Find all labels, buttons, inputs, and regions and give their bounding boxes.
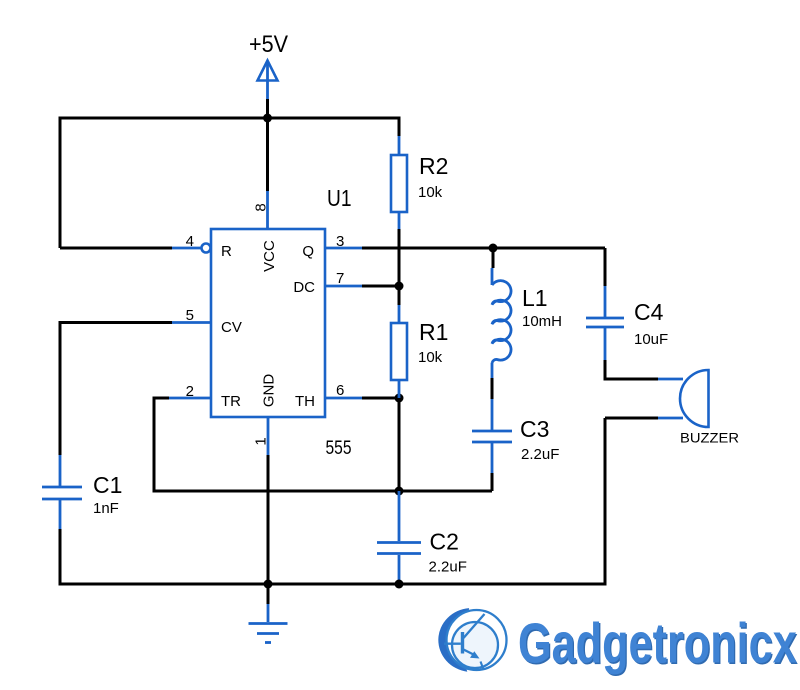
- svg-text:CV: CV: [221, 319, 242, 336]
- wire L1 to C3: [491, 378, 494, 399]
- capacitor C4: [586, 248, 624, 360]
- buzzer: [680, 370, 709, 427]
- wire bottom rail: [60, 418, 605, 584]
- buzzer top lead: [658, 378, 683, 381]
- svg-text:Q: Q: [302, 243, 314, 260]
- L1 designator: [522, 285, 548, 311]
- pin name DC: [293, 279, 315, 296]
- node C2 top junction: [395, 487, 404, 496]
- pin 3 stub: [325, 247, 362, 250]
- C1 value 1nF: [93, 500, 119, 517]
- wire +5V stem: [266, 99, 269, 118]
- wire C3 to TR net: [491, 473, 494, 491]
- L1 value 10mH: [522, 313, 562, 330]
- svg-text:TR: TR: [221, 393, 241, 410]
- pin 7 stub: [325, 285, 362, 288]
- wire C4 to buzzer: [605, 360, 658, 379]
- svg-text:1: 1: [253, 437, 270, 445]
- svg-text:R2: R2: [419, 153, 448, 179]
- svg-text:3: 3: [336, 233, 344, 250]
- resistor R1: [391, 286, 407, 398]
- svg-text:10mH: 10mH: [522, 313, 562, 330]
- svg-text:L1: L1: [522, 285, 548, 311]
- pin 6 stub: [325, 397, 362, 400]
- C2 designator: [430, 529, 459, 555]
- pin number 6: [336, 382, 344, 399]
- node pin6 junction: [395, 394, 404, 403]
- logo emblem: [438, 608, 506, 672]
- pin name GND: [261, 374, 278, 408]
- wire pin5 net: [60, 323, 172, 456]
- svg-text:6: 6: [336, 382, 344, 399]
- svg-text:10uF: 10uF: [634, 331, 668, 348]
- svg-text:10k: 10k: [418, 184, 443, 201]
- R2 value 10k: [418, 184, 443, 201]
- capacitor C3: [472, 399, 512, 473]
- wire pin3 net: [362, 247, 605, 250]
- pin name CV: [221, 319, 242, 336]
- ground: [249, 584, 288, 643]
- pin number 1: [253, 437, 270, 445]
- pin name VCC: [261, 240, 278, 272]
- R1 designator: [419, 319, 448, 345]
- pin number 2: [186, 383, 194, 400]
- svg-text:VCC: VCC: [261, 240, 278, 272]
- op-amp U1 555 IC body: [211, 229, 325, 417]
- node pin7 junction: [395, 282, 404, 291]
- svg-text:R: R: [221, 243, 232, 260]
- svg-text:C4: C4: [634, 299, 664, 325]
- wire top rail: [60, 118, 399, 248]
- BUZZER label: [680, 430, 739, 446]
- svg-text:10k: 10k: [418, 349, 443, 366]
- svg-text:DC: DC: [293, 279, 315, 296]
- capacitor C2: [377, 491, 421, 582]
- node C2 bottom junction: [395, 580, 404, 589]
- wire pin6 to C2: [398, 398, 401, 491]
- svg-text:Gadgetronicx: Gadgetronicx: [518, 611, 797, 675]
- wire pin7 net: [362, 285, 399, 288]
- svg-text:1nF: 1nF: [93, 500, 119, 517]
- pin 5 stub: [172, 321, 211, 324]
- svg-text:2.2uF: 2.2uF: [429, 559, 467, 576]
- svg-text:7: 7: [336, 270, 344, 287]
- wire pin6 net: [362, 397, 399, 400]
- C1 designator: [93, 472, 122, 498]
- 555 value label: [326, 437, 352, 459]
- pin number 5: [186, 307, 194, 324]
- pin number 8: [253, 203, 270, 211]
- wire pin2 net: [154, 398, 492, 491]
- pin 2 stub: [169, 397, 211, 400]
- svg-text:555: 555: [326, 437, 352, 459]
- wire R2 to pin7: [398, 229, 401, 286]
- pin number 3: [336, 233, 344, 250]
- wire pin8 drop: [266, 118, 269, 191]
- resistor R2: [391, 136, 407, 229]
- svg-text:GND: GND: [261, 374, 278, 408]
- node +5V junction: [263, 114, 272, 123]
- pin number 7: [336, 270, 344, 287]
- svg-text:C1: C1: [93, 472, 122, 498]
- pin number 4: [186, 233, 194, 250]
- wire buzzer return: [605, 417, 658, 420]
- inductor L1: [492, 248, 511, 378]
- svg-text:R1: R1: [419, 319, 448, 345]
- svg-text:5: 5: [186, 307, 194, 324]
- pin name R: [221, 243, 232, 260]
- buzzer bottom lead: [658, 417, 683, 420]
- R2 designator: [419, 153, 448, 179]
- inversion bubble pin4: [202, 244, 211, 253]
- node ground junction: [264, 580, 273, 589]
- wire pin4 net: [60, 247, 172, 250]
- pin 1 stub: [267, 417, 270, 455]
- svg-text:2: 2: [186, 383, 194, 400]
- svg-text:+5V: +5V: [249, 31, 288, 58]
- svg-text:TH: TH: [295, 393, 315, 410]
- svg-text:4: 4: [186, 233, 194, 250]
- pin name TH: [295, 393, 315, 410]
- +5V power symbol: [258, 61, 278, 100]
- C2 value 2.2uF: [429, 559, 467, 576]
- pin 8 stub: [266, 191, 269, 229]
- pin name TR: [221, 393, 241, 410]
- C4 value 10uF: [634, 331, 668, 348]
- R1 value 10k: [418, 349, 443, 366]
- C3 designator: [520, 416, 549, 442]
- pin name Q: [302, 243, 314, 260]
- C3 value 2.2uF: [521, 446, 559, 463]
- U1 designator: [327, 185, 352, 211]
- capacitor C1: [42, 455, 82, 529]
- svg-text:2.2uF: 2.2uF: [521, 446, 559, 463]
- svg-text:8: 8: [253, 203, 270, 211]
- svg-text:U1: U1: [327, 185, 352, 211]
- logo wordmark Gadgetronicx: [518, 611, 797, 675]
- pin 4 stub: [172, 247, 201, 250]
- node L1 tap junction: [489, 244, 498, 253]
- +5V label: [249, 31, 288, 58]
- svg-text:C3: C3: [520, 416, 549, 442]
- wire pin1 to ground rail: [267, 455, 270, 584]
- C4 designator: [634, 299, 664, 325]
- svg-text:BUZZER: BUZZER: [680, 430, 739, 446]
- svg-text:C2: C2: [430, 529, 459, 555]
